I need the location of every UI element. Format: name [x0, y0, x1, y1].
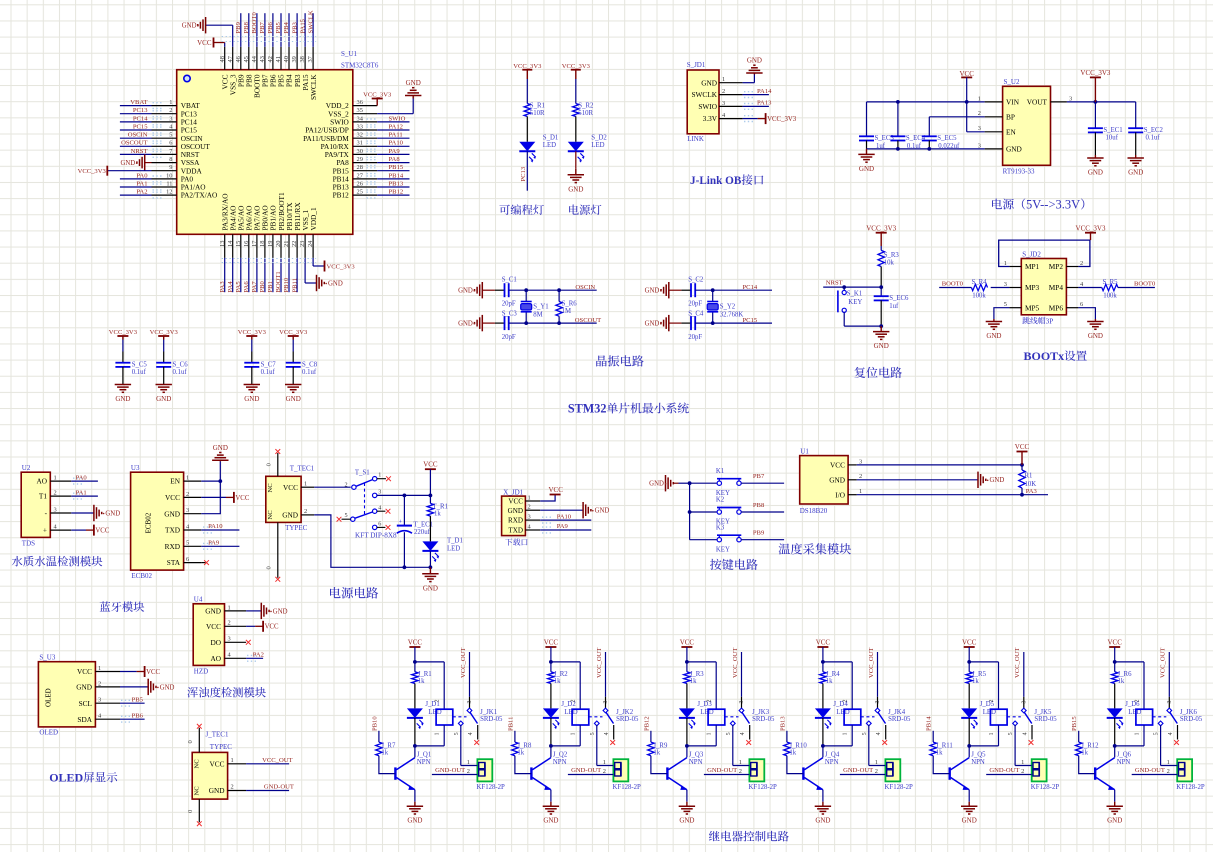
svg-text:2: 2	[304, 508, 307, 515]
svg-text:NRST: NRST	[131, 148, 148, 155]
svg-text:36: 36	[357, 99, 363, 106]
input rail wires	[867, 100, 985, 136]
svg-text:OSCIN: OSCIN	[575, 284, 595, 291]
MP5 to GND	[986, 308, 1010, 340]
svg-text:1uf: 1uf	[889, 303, 899, 310]
capacitor S_EC5 0.022uf	[922, 135, 960, 150]
U1 pin 12 (PA2/TX/AO) left	[120, 189, 217, 200]
relay unit 3 top branch wire	[687, 662, 716, 709]
U1 pin 31 (PA10/RX) right	[321, 140, 410, 151]
transistor J_Q2 NPN	[531, 746, 567, 802]
svg-text:OLED: OLED	[45, 688, 53, 707]
svg-text:PB4: PB4	[283, 21, 290, 33]
svg-text:T_S1: T_S1	[355, 470, 370, 477]
svg-text:1: 1	[231, 757, 234, 764]
relay unit 3 VCC terminal	[680, 639, 695, 664]
svg-text:T1: T1	[39, 492, 47, 501]
svg-text:3: 3	[54, 506, 57, 513]
wire bottom row	[695, 321, 772, 325]
svg-text:1k: 1k	[789, 750, 796, 757]
U3 pin 6 (STA)	[167, 556, 202, 567]
svg-text:1: 1	[169, 99, 172, 106]
module U3 ECB02 body	[131, 472, 184, 570]
svg-text:1: 1	[1021, 759, 1024, 766]
J_TEC1 pin1 VCC_OUT	[209, 757, 292, 768]
connector J_J6 KF128-2P	[1132, 759, 1205, 791]
U2 pin 4 (+)	[43, 524, 71, 535]
svg-text:GND: GND	[205, 607, 221, 616]
capacitor S_EC1 10uf	[1087, 127, 1122, 176]
U1 pin 21 (PB10/TX) bottom	[283, 202, 294, 293]
svg-text:K3: K3	[716, 524, 725, 531]
svg-text:LED: LED	[447, 546, 460, 553]
svg-text:MP1: MP1	[1025, 262, 1040, 271]
svg-text:2: 2	[186, 491, 189, 498]
svg-text:U3: U3	[131, 464, 140, 472]
svg-text:SWIO: SWIO	[698, 102, 717, 111]
svg-text:+: +	[43, 526, 47, 535]
wire U1 pin24 VDD_1 to VCC_3V3	[313, 258, 324, 266]
svg-text:VCC: VCC	[680, 639, 695, 647]
U2 pin 3 (-)	[45, 506, 72, 517]
svg-text:VCC_3V3: VCC_3V3	[1076, 225, 1106, 233]
U4 VCC terminal	[246, 621, 279, 632]
VCC terminal input	[959, 70, 974, 102]
svg-text:TXD: TXD	[165, 526, 180, 535]
svg-text:GND: GND	[747, 57, 762, 65]
svg-text:PB13: PB13	[779, 716, 786, 731]
U1 pin 25 (PB12) right	[333, 189, 410, 200]
svg-text:SDA: SDA	[77, 715, 92, 724]
svg-text:KF128-2P: KF128-2P	[613, 784, 642, 791]
VCC_3V3 terminal at U1 pin 24	[325, 261, 356, 272]
svg-text:PC15: PC15	[743, 317, 758, 324]
svg-text:2: 2	[435, 700, 441, 703]
svg-text:27: 27	[357, 172, 364, 179]
resistor T_R1 1k	[427, 495, 448, 541]
svg-text:22: 22	[291, 241, 298, 247]
U1 pin 6 (OSCOUT) left	[120, 140, 211, 151]
svg-text:NPN: NPN	[971, 759, 985, 766]
push button K3	[690, 524, 785, 553]
svg-text:4: 4	[378, 504, 381, 511]
svg-text:2: 2	[603, 768, 606, 775]
resistor S_R4 100k + BOOT0	[939, 279, 1009, 299]
crystal circuit GND left top	[645, 282, 691, 298]
crystal S_Y1	[521, 290, 549, 323]
U1 pin 34 (SWIO) right	[330, 115, 409, 126]
capacitor top 20pF	[688, 277, 704, 308]
svg-text:1: 1	[603, 759, 606, 766]
svg-text:J_R9: J_R9	[653, 743, 668, 750]
svg-text:VCC: VCC	[146, 669, 160, 676]
relay switch J_JK5 SRD-05	[1007, 648, 1057, 766]
resistor J_R4 1k	[820, 662, 841, 709]
crystal GND left bottom	[645, 315, 691, 331]
decoupling capacitor S_C6 0.1uf	[150, 329, 189, 403]
GND relay unit 3	[686, 802, 688, 807]
regulator S_U2 RT9193-33 body	[1003, 86, 1051, 165]
push button K1	[690, 468, 785, 497]
resistor J_R6 1k	[1112, 662, 1133, 709]
S_U2 pin 1 (VIN)	[978, 95, 1020, 106]
svg-text:SRD-05: SRD-05	[1034, 716, 1057, 723]
svg-text:KEY: KEY	[848, 299, 862, 306]
svg-text:PA3: PA3	[1026, 488, 1038, 495]
svg-text:ECB02: ECB02	[131, 572, 152, 580]
S_U2 pin 3 (GND)	[978, 142, 1022, 153]
svg-text:PB12: PB12	[333, 191, 350, 200]
U4 pin 4 (AO)	[210, 652, 246, 663]
push button K2	[690, 497, 785, 526]
svg-text:J_R7: J_R7	[381, 743, 396, 750]
svg-text:VDD_1: VDD_1	[309, 207, 318, 230]
relay coil J_JK1	[413, 700, 453, 748]
LED J_D6	[1107, 701, 1142, 746]
svg-text:38: 38	[299, 56, 306, 62]
svg-text:1: 1	[54, 475, 57, 482]
svg-text:GND: GND	[213, 444, 228, 452]
svg-text:2: 2	[467, 768, 470, 775]
net PA9	[201, 540, 239, 550]
svg-text:4: 4	[468, 732, 474, 735]
VCC terminal power circuit	[423, 461, 438, 496]
svg-text:S_EC2: S_EC2	[1144, 127, 1164, 134]
svg-text:RT9193-33: RT9193-33	[1003, 168, 1035, 176]
U1 pin 40 (PB4) top	[283, 13, 294, 87]
S_U2 pin 2 (BP)	[978, 110, 1015, 121]
svg-text:PB3: PB3	[291, 21, 298, 33]
svg-text:1: 1	[722, 76, 725, 83]
svg-text:2: 2	[1167, 768, 1170, 775]
U1 pin 11 (PA1/AO) left	[120, 180, 206, 191]
svg-text:PB14: PB14	[926, 716, 933, 731]
svg-text:0.1uf: 0.1uf	[302, 369, 317, 376]
svg-text:3: 3	[228, 636, 231, 643]
X_JD1 pin 1 (VCC)	[508, 494, 540, 505]
svg-text:32: 32	[357, 132, 363, 139]
svg-text:13: 13	[219, 241, 226, 247]
wire S_JD1 pin1 to GND	[743, 75, 755, 83]
svg-text:S_R6: S_R6	[562, 301, 578, 308]
svg-text:S_U1: S_U1	[341, 50, 357, 58]
svg-text:PB12: PB12	[389, 189, 404, 196]
decoupling capacitor S_C7 0.1uf	[238, 329, 277, 403]
svg-text:GND-OUT: GND-OUT	[989, 767, 1019, 774]
svg-text:VCC: VCC	[423, 461, 438, 469]
svg-text:VCC_3V3: VCC_3V3	[327, 264, 356, 271]
svg-text:10uf: 10uf	[1106, 135, 1119, 142]
U1 pin 26 (PB13) right	[333, 180, 410, 191]
svg-text:PB7: PB7	[259, 21, 266, 33]
keys GND sideways	[649, 475, 689, 491]
svg-text:S_Y2: S_Y2	[720, 304, 736, 311]
svg-text:AO: AO	[36, 477, 47, 486]
svg-text:PC14: PC14	[743, 284, 758, 291]
caption crystal circuit	[596, 355, 607, 366]
svg-text:3.3V: 3.3V	[703, 114, 718, 123]
keys vertical rail	[688, 481, 692, 539]
capacitor S_EC3 1uf	[859, 135, 894, 150]
svg-text:SRD-05: SRD-05	[480, 716, 503, 723]
svg-text:PA6: PA6	[243, 281, 250, 293]
svg-text:VCC_OUT: VCC_OUT	[1160, 648, 1167, 678]
svg-text:PA15: PA15	[299, 18, 306, 33]
U2 pin 1 (AO)	[36, 475, 71, 486]
LED T_D1	[422, 538, 462, 568]
wire top row	[509, 288, 597, 292]
svg-text:3: 3	[528, 514, 531, 521]
svg-text:GND: GND	[209, 786, 225, 795]
svg-text:VCC: VCC	[544, 639, 559, 647]
U1 DS18B20 pin 3 (VCC)	[830, 458, 862, 469]
net PB6	[120, 712, 145, 722]
svg-text:1: 1	[571, 733, 577, 736]
svg-text:VCC: VCC	[549, 486, 564, 494]
svg-text:VCC_3V3: VCC_3V3	[866, 225, 896, 233]
svg-text:STM32C8T6: STM32C8T6	[341, 62, 379, 70]
svg-text:J_R6: J_R6	[1118, 671, 1133, 678]
svg-text:3P: 3P	[1046, 318, 1054, 326]
svg-text:45: 45	[243, 56, 250, 62]
svg-text:GND-OUT: GND-OUT	[1135, 767, 1165, 774]
svg-text:2: 2	[1134, 700, 1140, 703]
svg-text:0.1uf: 0.1uf	[1146, 135, 1161, 142]
S_U3 pin 4 (SDA)	[77, 713, 120, 724]
svg-text:26: 26	[357, 180, 363, 187]
svg-text:U2: U2	[22, 464, 31, 472]
svg-text:S_D2: S_D2	[591, 135, 607, 142]
svg-text:0.1uf: 0.1uf	[132, 369, 147, 376]
svg-text:5: 5	[862, 732, 868, 735]
svg-text:GND: GND	[286, 395, 301, 403]
svg-text:5: 5	[1008, 732, 1014, 735]
crystal circuit GND left top	[458, 282, 504, 298]
U3 pin 1 (EN)	[170, 475, 201, 486]
GND relay unit 6	[1114, 802, 1116, 807]
U1 pin 37 (SWCLK) top	[307, 10, 318, 100]
svg-text:3: 3	[186, 507, 189, 514]
U4 DO no-connect	[246, 640, 251, 645]
GND symbol above U1 pin35	[405, 79, 421, 98]
svg-text:1k: 1k	[517, 750, 524, 757]
svg-text:SRD-05: SRD-05	[616, 716, 639, 723]
svg-text:PA10: PA10	[557, 513, 572, 520]
U1 pin 2 (PC13) left	[120, 107, 197, 118]
svg-text:OSCOUT: OSCOUT	[121, 140, 147, 147]
decoupling capacitor S_C8 0.1uf	[279, 329, 318, 403]
svg-text:PB14: PB14	[389, 172, 404, 179]
svg-text:SRD-05: SRD-05	[888, 716, 911, 723]
svg-text:VCC_3V3: VCC_3V3	[78, 168, 107, 175]
connector J_J5 KF128-2P	[986, 759, 1059, 791]
capacitor bottom 20pF	[688, 311, 704, 341]
S_U3 pin 2 (GND)	[76, 680, 120, 691]
svg-text:5: 5	[1004, 301, 1007, 308]
svg-text:29: 29	[357, 156, 363, 163]
svg-text:PC14: PC14	[133, 115, 148, 122]
transistor J_Q6 NPN	[1095, 746, 1131, 802]
svg-text:S_R4: S_R4	[971, 279, 987, 286]
svg-text:GND: GND	[1006, 145, 1022, 154]
relay coil J_JK6	[1113, 700, 1153, 748]
VCC_3V3 terminal output	[1090, 76, 1101, 78]
svg-text:SWCLK: SWCLK	[307, 10, 314, 33]
J-Link connector S_JD1 body	[687, 70, 719, 134]
svg-text:1: 1	[843, 733, 849, 736]
svg-text:LED: LED	[591, 142, 604, 149]
svg-text:GND: GND	[1107, 817, 1122, 825]
resistor J_R5 1k	[966, 662, 987, 709]
svg-text:X_JD1: X_JD1	[503, 489, 523, 497]
svg-text:1k: 1k	[418, 678, 425, 685]
module S_U3 OLED body	[38, 662, 95, 727]
S_U3 pin 1 (VCC)	[77, 665, 120, 676]
svg-text:VCC: VCC	[77, 667, 92, 676]
U1 pin 28 (PB15) right	[333, 164, 410, 175]
svg-text:GND: GND	[105, 510, 120, 517]
svg-text:GND: GND	[815, 817, 830, 825]
wire U1 pin35 to GND	[377, 99, 413, 114]
capacitor S_EC2 0.1uf	[1128, 127, 1164, 176]
svg-text:20pF: 20pF	[502, 334, 516, 341]
svg-text:2: 2	[571, 700, 577, 703]
svg-text:PB0: PB0	[259, 280, 266, 292]
svg-text:TXD: TXD	[508, 527, 523, 535]
svg-text:19: 19	[267, 241, 274, 247]
resistor S_R6 1M	[556, 290, 577, 323]
svg-text:S_R5: S_R5	[1102, 279, 1118, 286]
connector J_J2 KF128-2P	[568, 759, 641, 791]
svg-text:PA11: PA11	[389, 132, 403, 139]
T_TEC1 bottom stub	[266, 522, 281, 581]
base resistor J_R9 1k + net PB12	[643, 716, 668, 773]
svg-text:VCC: VCC	[206, 622, 221, 631]
svg-text:KF128-2P: KF128-2P	[749, 784, 778, 791]
svg-text:VCC_3V3: VCC_3V3	[238, 329, 267, 336]
X_JD1 VCC wire	[540, 486, 563, 501]
net PB5	[120, 696, 145, 706]
svg-text:3: 3	[1167, 701, 1173, 704]
switch T_S1	[337, 470, 397, 540]
svg-text:J_Q2: J_Q2	[553, 752, 568, 759]
svg-text:PA13: PA13	[757, 100, 772, 107]
net PA10	[201, 523, 239, 533]
svg-text:2: 2	[875, 768, 878, 775]
svg-text:PC13: PC13	[133, 107, 148, 114]
LED lamp circuit S_R2/S_D2	[562, 63, 608, 163]
svg-text:GND: GND	[164, 509, 180, 518]
U1 pin 38 (PA15) top	[299, 13, 310, 90]
svg-text:220uf: 220uf	[414, 529, 431, 536]
net PA0	[71, 474, 98, 484]
resistor J_R2 1k	[548, 662, 569, 709]
svg-text:GND: GND	[273, 608, 288, 615]
svg-text:VCC_OUT: VCC_OUT	[868, 648, 875, 678]
svg-text:NC: NC	[193, 759, 200, 769]
svg-text:5: 5	[345, 512, 348, 519]
transistor J_Q4 NPN	[803, 746, 839, 802]
relay unit 5 VCC terminal	[962, 639, 977, 664]
svg-text:9: 9	[169, 164, 172, 171]
svg-text:3: 3	[875, 701, 881, 704]
svg-text:1: 1	[875, 759, 878, 766]
svg-text:RXD: RXD	[165, 542, 180, 551]
U4 GND sideways	[246, 603, 288, 619]
svg-text:PB11: PB11	[291, 278, 298, 292]
U1 pin 14 (PA4/AO) bottom	[227, 206, 238, 293]
svg-text:PA9: PA9	[208, 540, 220, 547]
svg-text:PA12: PA12	[389, 123, 403, 130]
svg-text:1k: 1k	[381, 750, 388, 757]
U1 pin 33 (PA12/USB/DP) right	[305, 123, 409, 134]
svg-text:6: 6	[378, 521, 381, 528]
svg-text:S_C5: S_C5	[132, 362, 148, 369]
transistor J_Q3 NPN	[667, 746, 703, 802]
svg-text:S_JD1: S_JD1	[687, 61, 706, 69]
net PA14	[743, 88, 773, 98]
output wires	[1067, 100, 1136, 128]
svg-text:2: 2	[739, 768, 742, 775]
GND power circuit	[429, 567, 431, 574]
svg-text:S_U3: S_U3	[39, 654, 55, 662]
J_TEC1 bottom stub	[187, 799, 202, 826]
svg-text:14: 14	[227, 240, 234, 247]
LED J_D4	[815, 701, 850, 746]
svg-text:S_K1: S_K1	[847, 291, 863, 298]
VCC terminal at U2 pin4	[71, 525, 110, 536]
svg-text:3: 3	[1021, 701, 1027, 704]
svg-text:3: 3	[378, 489, 381, 496]
U3 pin 4 (TXD)	[165, 523, 201, 534]
svg-text:1k: 1k	[554, 678, 561, 685]
relay switch J_JK1 SRD-05	[453, 648, 503, 766]
U1 pin 23 (VSS_1) bottom	[299, 209, 310, 257]
relay switch J_JK4 SRD-05	[861, 648, 911, 766]
U3 pin 5 (RXD)	[165, 540, 202, 551]
svg-text:GND: GND	[859, 165, 874, 173]
U1 pin 5 (OSCIN) left	[120, 132, 203, 143]
svg-text:PA2: PA2	[253, 652, 264, 659]
svg-text:100k: 100k	[972, 293, 986, 300]
svg-text:5: 5	[169, 132, 172, 139]
GND symbol at U1 pin 8	[120, 154, 151, 170]
svg-text:1k: 1k	[690, 678, 697, 685]
caption power 5V to 3.3V	[992, 199, 1002, 210]
svg-text:OLED: OLED	[49, 771, 83, 785]
svg-text:GND: GND	[874, 342, 889, 350]
svg-text:J_R2: J_R2	[554, 671, 569, 678]
svg-text:SCL: SCL	[79, 699, 93, 708]
U1 DS18B20 pin 2 (GND)	[829, 473, 862, 484]
svg-text:VOUT: VOUT	[1027, 98, 1048, 107]
svg-text:2: 2	[707, 700, 713, 703]
svg-text:GND: GND	[156, 395, 171, 403]
TEC1 GND return wire	[314, 515, 432, 569]
svg-text:S_C8: S_C8	[302, 362, 318, 369]
caption reset circuit	[854, 367, 865, 378]
relay coil J_JK4	[821, 700, 861, 748]
U1 pin 29 (PA8) right	[336, 156, 409, 167]
svg-text:U1: U1	[800, 448, 809, 456]
svg-text:S_C1: S_C1	[502, 277, 517, 284]
resistor S_R5 100k + BOOT0 right	[1078, 279, 1156, 299]
svg-text:6: 6	[169, 140, 172, 147]
svg-text:MP2: MP2	[1049, 262, 1064, 271]
base resistor J_R11 1k + net PB14	[926, 716, 953, 774]
svg-text:VCC_3V3: VCC_3V3	[279, 329, 308, 336]
GND symbol above S_JD1	[753, 73, 755, 75]
